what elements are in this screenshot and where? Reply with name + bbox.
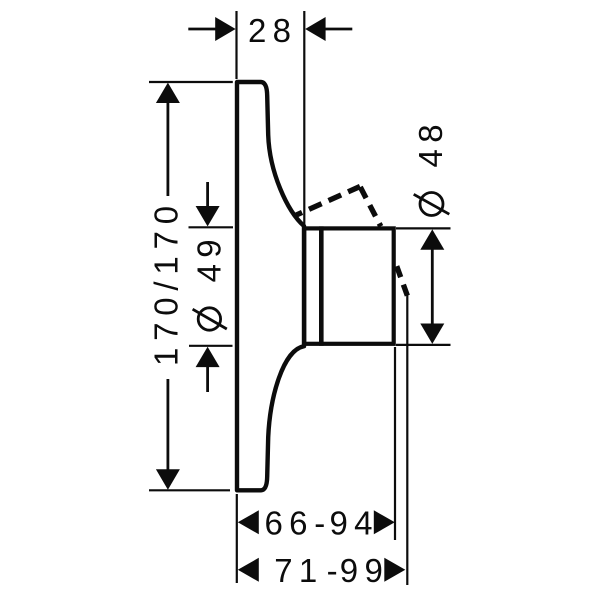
dim Ø48: bottom extension line xyxy=(396,344,451,346)
dim Ø49: diameter symbol xyxy=(193,308,227,330)
handle body outline xyxy=(304,228,393,343)
dashed rotated handle top edge xyxy=(295,187,361,216)
svg-text:99: 99 xyxy=(340,552,389,589)
svg-text:94: 94 xyxy=(330,505,379,542)
dim 71-99: right extension line below dashed handle extent xyxy=(406,295,408,585)
escutcheon plate profile xyxy=(237,82,304,490)
dim 71-99: right arrowhead xyxy=(384,558,405,582)
dim 66-94: left arrowhead xyxy=(238,510,259,534)
dim Ø48: dimension line with two arrows xyxy=(431,247,434,326)
svg-text:71: 71 xyxy=(274,552,323,589)
dim Ø48: top extension line xyxy=(396,227,451,229)
dim 28: left extension line xyxy=(235,11,237,79)
dim 170/170: bottom extension line xyxy=(149,489,230,491)
dashed rotated handle right edge xyxy=(360,187,381,226)
svg-text:-: - xyxy=(327,552,338,589)
dim 28: right extension line xyxy=(303,11,305,225)
svg-text:-: - xyxy=(314,505,325,542)
dim 170/170: top extension line xyxy=(149,81,233,83)
svg-text:48: 48 xyxy=(412,118,449,167)
dim Ø49: top extension line xyxy=(189,226,234,228)
dim Ø48: diameter symbol xyxy=(414,193,450,216)
svg-text:49: 49 xyxy=(191,233,228,282)
svg-text:66: 66 xyxy=(265,505,314,542)
dim 71-99: left arrowhead xyxy=(238,558,259,582)
dim 66-94: right arrowhead xyxy=(374,510,395,534)
dim 170/170: dimension line upper segment with up arrow xyxy=(166,101,169,196)
dim 28: right arrow xyxy=(326,28,353,31)
dim Ø49: lower outside arrow pointing up xyxy=(206,367,209,392)
dim 28: left arrow xyxy=(188,28,216,31)
handle grip joint line xyxy=(319,226,324,345)
svg-text:28: 28 xyxy=(248,12,297,49)
handle sleeve line (collar left edge) xyxy=(302,228,307,343)
dim Ø49: upper outside arrow pointing down xyxy=(206,182,209,206)
dashed rotated handle corner sweep xyxy=(397,266,408,296)
dim 66-94: left extension line below plate xyxy=(236,494,238,583)
dim 66-94: right extension line below handle xyxy=(394,347,396,540)
svg-text:170/170: 170/170 xyxy=(148,199,185,366)
dim 170/170: dimension line lower segment with down arrow xyxy=(166,379,169,471)
dim Ø49: bottom extension line xyxy=(189,345,233,347)
